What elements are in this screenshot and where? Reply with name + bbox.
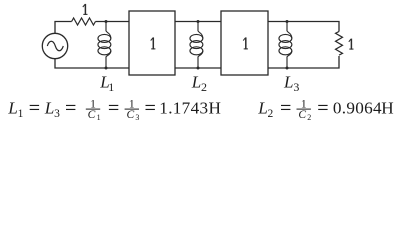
- svg-text:1.1743: 1.1743: [159, 99, 208, 118]
- svg-text:L: L: [7, 99, 18, 118]
- svg-text:1: 1: [18, 108, 24, 120]
- svg-text:3: 3: [54, 108, 60, 120]
- svg-text:L: L: [257, 99, 268, 118]
- svg-text:2: 2: [307, 113, 311, 122]
- svg-text:2: 2: [268, 108, 274, 120]
- svg-text:H: H: [209, 99, 221, 118]
- svg-text:1: 1: [97, 113, 101, 122]
- svg-text:C: C: [126, 109, 134, 121]
- svg-text:L: L: [44, 99, 55, 118]
- svg-text:H: H: [381, 99, 393, 118]
- svg-text:0.9064: 0.9064: [333, 99, 382, 118]
- svg-text:3: 3: [135, 113, 139, 122]
- svg-text:C: C: [298, 109, 306, 121]
- svg-text:C: C: [88, 109, 96, 121]
